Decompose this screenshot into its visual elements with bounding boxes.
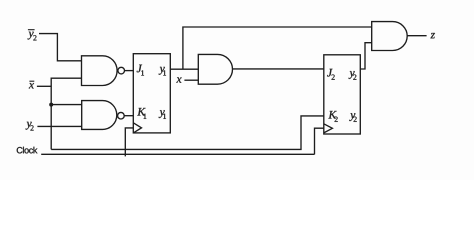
nand-gate G2 bubble <box>118 112 125 119</box>
wire xbar bus to K2 input of FF2 <box>51 116 324 149</box>
wire G1 output to J1 input <box>125 70 134 72</box>
nand-gate G2 body <box>82 101 117 130</box>
pin label K1 <box>137 108 146 119</box>
pin label J2 <box>327 69 335 80</box>
node ybar2 input label <box>28 32 37 41</box>
node Clock label <box>17 147 38 154</box>
wire xbar vertical bus and branch to NAND G1 bottom input <box>51 78 81 149</box>
wire G3 output to J2 input <box>233 68 324 70</box>
wire y1 riser and top rail to gate G4 top input <box>183 27 372 69</box>
wire xbar label to vertical bus <box>37 85 51 87</box>
node x input label <box>176 77 181 82</box>
clock chevron FF1 <box>133 123 141 133</box>
clock chevron FF2 <box>324 124 333 133</box>
pin label y2 top <box>349 71 357 80</box>
pin label K2 <box>328 111 337 122</box>
wire clock riser to FF1 <box>125 128 133 156</box>
and-gate G3 body <box>198 54 232 84</box>
pin label y1 bottom <box>159 110 166 119</box>
flip-flop FF1 box <box>133 54 170 133</box>
pin label y1 top <box>159 67 166 76</box>
node xbar input label <box>29 83 34 88</box>
wire clock rail <box>41 153 314 155</box>
nand-gate G1 bubble <box>118 67 125 74</box>
node z output label <box>430 33 434 38</box>
overbar of xbar <box>29 80 34 82</box>
node y2 input label <box>26 122 34 131</box>
wire y2 label to NAND G2 bottom input <box>37 125 81 127</box>
overbar of ybar2 <box>28 29 35 31</box>
flip-flop FF2 box <box>324 55 361 134</box>
wire G4 output to z <box>407 35 426 37</box>
wire ybar2 to NAND G1 top input <box>39 34 82 61</box>
pin label y2 bottom <box>349 113 356 122</box>
nand-gate G1 body <box>82 56 118 86</box>
junction dot on xbar bus <box>49 103 53 107</box>
wire G2 output to K1 input <box>124 115 133 117</box>
wire clock riser to FF2 <box>315 128 324 154</box>
wire x label to AND G3 bottom input <box>184 79 198 81</box>
and-gate G4 body for z <box>372 22 407 51</box>
pin label J1 <box>137 65 144 76</box>
wire xbar branch to NAND G2 top input <box>51 104 81 106</box>
wire y1 output to AND G3 top input <box>170 68 198 70</box>
wire y2 output to gate G4 bottom input <box>360 43 371 69</box>
